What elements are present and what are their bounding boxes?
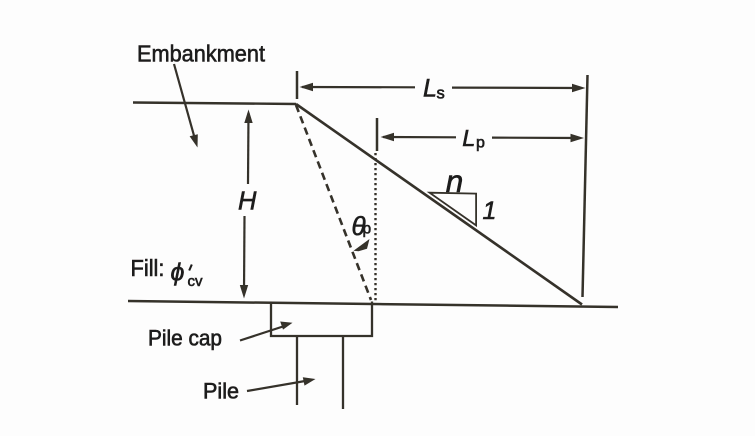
Pile arrowhead bbox=[303, 377, 316, 385]
svg-text:L: L bbox=[462, 125, 475, 151]
svg-text:s: s bbox=[437, 85, 445, 103]
svg-text:ϕ: ϕ bbox=[171, 259, 185, 287]
svg-text:p: p bbox=[363, 221, 372, 238]
H top arrowhead bbox=[244, 110, 252, 124]
embankment slope line bbox=[296, 104, 582, 305]
slope ratio triangle bbox=[430, 193, 477, 226]
svg-text:n: n bbox=[446, 163, 464, 199]
label phi prime bbox=[189, 265, 192, 271]
Lp right arrowhead bbox=[571, 134, 585, 142]
pile cap bbox=[271, 302, 372, 337]
theta-p mini arrowhead bbox=[354, 239, 370, 251]
svg-text:L: L bbox=[423, 75, 437, 103]
H bottom arrowhead bbox=[240, 285, 248, 299]
Lp left arrowhead bbox=[381, 133, 395, 141]
pile left bbox=[296, 336, 298, 405]
right vertical reference line bbox=[583, 75, 588, 297]
svg-text:Fill:: Fill: bbox=[131, 255, 165, 281]
pile right bbox=[342, 336, 344, 409]
Ls right arrowhead bbox=[572, 84, 586, 92]
svg-text:Pile: Pile bbox=[203, 379, 239, 404]
embankment crest line bbox=[133, 103, 296, 105]
tick Ls left bbox=[296, 71, 299, 99]
svg-text:Embankment: Embankment bbox=[137, 41, 265, 67]
ground line bbox=[128, 301, 618, 307]
H dimension arrow shafts bbox=[247, 113, 250, 184]
svg-text:H: H bbox=[238, 188, 257, 216]
Embankment leader line bbox=[174, 64, 196, 141]
Pile leader line bbox=[247, 381, 308, 392]
Lp dimension arrow shafts bbox=[383, 136, 456, 139]
Pile cap arrowhead bbox=[280, 322, 292, 330]
Pile cap leader line bbox=[240, 326, 286, 341]
Ls left arrowhead bbox=[300, 83, 314, 91]
svg-text:p: p bbox=[476, 135, 485, 152]
dashed slip line bbox=[296, 105, 371, 300]
Embankment arrowhead bbox=[190, 134, 198, 147]
svg-text:Pile cap: Pile cap bbox=[148, 326, 222, 351]
dotted vertical line bbox=[374, 153, 376, 301]
svg-text:1: 1 bbox=[483, 197, 497, 225]
tick Lp left bbox=[376, 118, 379, 151]
Ls dimension arrow shafts bbox=[302, 86, 415, 89]
svg-text:cv: cv bbox=[188, 273, 204, 290]
